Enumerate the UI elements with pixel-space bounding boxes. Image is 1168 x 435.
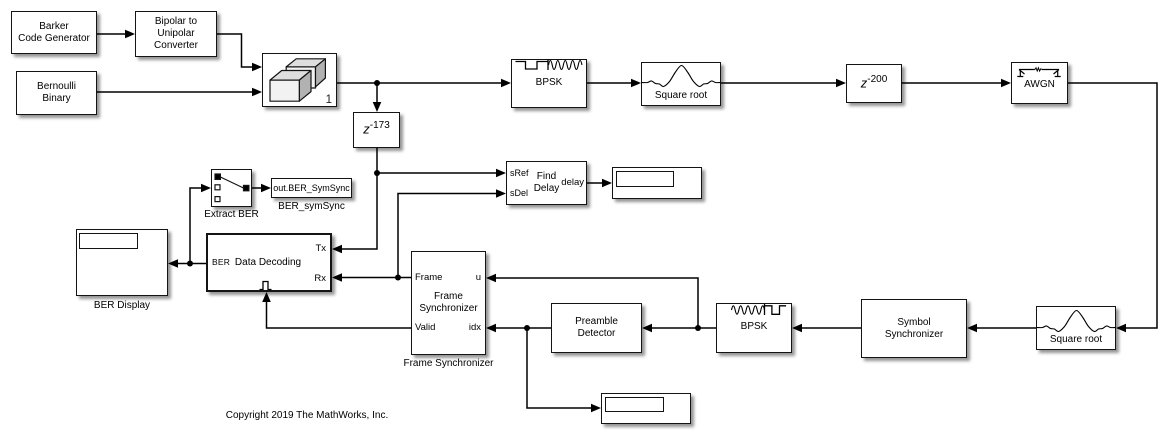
port label Frame: [415, 273, 442, 283]
label Frame Synchronizer: [403, 358, 493, 369]
junction node at 190,263.5: [187, 261, 193, 267]
block Delay Z^-173: [353, 112, 400, 148]
arrowhead into idx: [486, 324, 496, 333]
arrowhead into Z-200: [836, 79, 846, 88]
icon AWGN noise zigzag: [1035, 68, 1042, 71]
port label BER: [212, 258, 230, 268]
arrowhead into Tx: [332, 245, 342, 254]
wire Bipolar to Concatenate in1: [217, 34, 254, 67]
wire AWGN right and down to Rx Square root: [1068, 83, 1157, 328]
wire junction down and left into Data Decoding Tx: [341, 173, 377, 249]
icon BPSK demod square wave: [765, 306, 787, 315]
arrowhead into trigger (up): [262, 292, 271, 302]
arrowhead into Z-173 top: [373, 102, 382, 112]
arrowhead into u: [486, 274, 496, 283]
icon BPSK modulator square wave: [516, 62, 549, 70]
block Display (delay value): [612, 167, 702, 199]
junction node at 377,83: [374, 80, 380, 86]
port label Rx: [314, 274, 326, 284]
wire Find Delay to Display: [587, 182, 603, 184]
wire Z-200 to AWGN: [902, 82, 1002, 84]
block Frame Concatenate (3D cubes, port 1): [262, 53, 337, 107]
label Extract BER: [204, 209, 258, 220]
wire branch up to Find Delay sDel: [398, 194, 497, 278]
arrowhead into Concatenate in2: [252, 88, 262, 97]
icon Concatenate front cuboid: [270, 71, 311, 102]
block Bernoulli Binary: [16, 71, 97, 115]
junction node at 377,173: [374, 170, 380, 176]
arrowhead into Rx Square root: [1116, 324, 1126, 333]
block Square root Tx filter: [641, 62, 721, 106]
wire junction to Find Delay sRef: [377, 172, 497, 174]
block BPSK Modulator: [511, 59, 587, 108]
wire Preamble out to Frame Synchronizer idx: [495, 327, 551, 329]
icon AWGN line with noise: [1019, 69, 1059, 71]
block Preamble Detector: [551, 303, 642, 353]
block Find Delay: [506, 161, 587, 205]
icon AWGN right terminal: [1054, 70, 1061, 77]
block BER Display: [76, 229, 168, 296]
arrowhead into Symbol Synchronizer: [967, 324, 977, 333]
arrowhead into Display: [602, 179, 612, 188]
icon AWGN left terminal: [1017, 70, 1024, 77]
arrowhead into BER Display: [168, 259, 178, 268]
arrowhead into Extract BER: [201, 184, 211, 193]
wire Extract BER to To Workspace: [252, 187, 262, 189]
port label delay: [561, 178, 584, 188]
label BER_symSync: [278, 201, 345, 212]
port label u: [476, 273, 481, 283]
icon Square root Tx pulse: [642, 66, 721, 87]
arrowhead into Square root: [631, 79, 641, 88]
arrowhead into idx Display: [591, 404, 601, 413]
wire Valid out to Data Decoding trigger: [267, 301, 412, 328]
icon Concatenate back cuboid: [286, 59, 325, 88]
arrowhead into AWGN: [1001, 79, 1011, 88]
block AWGN Channel: [1011, 62, 1068, 104]
wire branch down to idx Display: [527, 328, 592, 408]
wire Frame out to Data Decoding Rx: [341, 277, 411, 279]
port label idx: [469, 323, 481, 333]
wire Z-173 out down to junction: [376, 148, 378, 173]
junction node at 698,328: [695, 325, 701, 331]
port label sRef: [510, 169, 529, 179]
block Data Decoding (bold subsystem): [206, 233, 332, 292]
block Extract BER (selector): [211, 169, 252, 207]
arrowhead into sDel: [496, 189, 506, 198]
wire Rx Square root to Symbol Synchronizer: [976, 327, 1036, 329]
arrowhead into BPSK: [501, 79, 511, 88]
arrowhead into BPSK demod: [792, 324, 802, 333]
block Frame Synchronizer: [411, 251, 486, 355]
arrowhead into Bipolar: [125, 30, 135, 39]
icon Square root Rx pulse: [1037, 311, 1116, 332]
arrowhead into Preamble Detector: [642, 324, 652, 333]
wire branch down to Z-173: [376, 83, 378, 103]
wire BPSK to Square root: [587, 82, 632, 84]
block Display (idx value): [601, 393, 691, 424]
junction node at 398,277.5: [395, 275, 401, 281]
label BER Display: [94, 300, 150, 311]
wire Data Decoding BER out to BER Display: [177, 263, 206, 265]
wire Bernoulli to Concatenate in2: [97, 91, 253, 93]
wire Concatenate to BPSK: [337, 82, 502, 84]
port label Valid: [415, 323, 435, 333]
wire branch up to Frame Synchronizer u: [495, 278, 698, 328]
block Bipolar to Unipolar Converter: [135, 11, 217, 57]
wire BPSK demod to Preamble Detector: [651, 327, 716, 329]
wire branch up to Extract BER: [190, 188, 202, 264]
icon BPSK modulator sine: [549, 61, 582, 70]
arrowhead into sRef: [496, 169, 506, 178]
port label Tx: [315, 244, 326, 254]
icon Extract BER selector: [215, 174, 249, 202]
block Symbol Synchronizer: [861, 299, 967, 358]
wire Symbol Synchronizer to BPSK demod: [801, 327, 861, 329]
arrowhead into To Workspace: [261, 184, 271, 193]
arrowhead into Concatenate in1: [252, 63, 262, 72]
wire Square root to Z-200: [721, 82, 837, 84]
label Copyright 2019 The MathWorks, Inc.: [226, 410, 389, 421]
junction node at 527,328: [524, 325, 530, 331]
block Square root Rx filter: [1036, 306, 1116, 350]
icon Data Decoding trigger pulse: [260, 282, 272, 290]
icon BPSK modulator divider: [547, 59, 549, 70]
block BPSK Demodulator: [716, 303, 792, 353]
icon BPSK demod divider: [764, 304, 766, 315]
block Delay Z^-200: [846, 64, 902, 103]
icon BPSK demod sine: [732, 306, 765, 314]
wire Barker to Bipolar: [97, 33, 126, 35]
block Barker Code Generator: [11, 11, 97, 54]
block To Workspace out.BER_SymSync: [271, 178, 352, 198]
port label sDel: [510, 189, 528, 199]
arrowhead into Rx: [332, 273, 342, 282]
